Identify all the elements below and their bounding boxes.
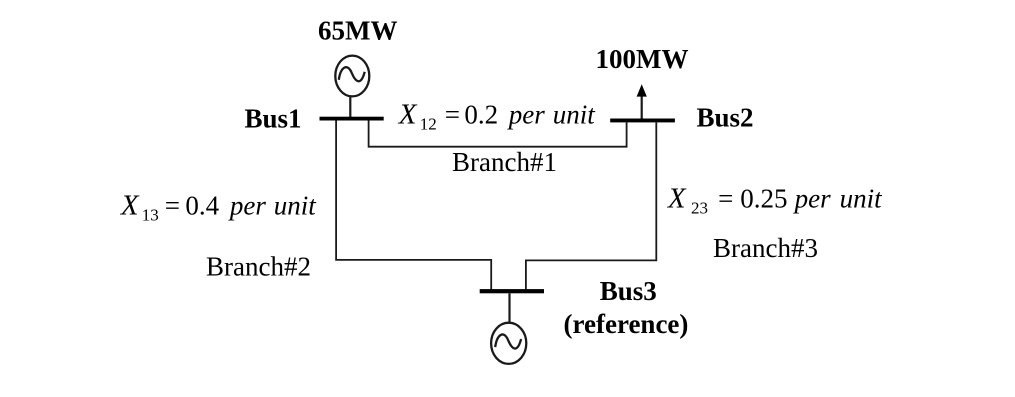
- wire: Branch#1 (Bus1 to Bus2): [369, 121, 627, 147]
- wire: Bus3 stem to G3: [508, 293, 510, 324]
- svg-text:Bus1: Bus1: [245, 104, 302, 134]
- svg-text:Bus2: Bus2: [697, 103, 754, 133]
- wire: G1 stem to Bus1: [349, 96, 351, 117]
- svg-text:(reference): (reference): [564, 309, 689, 339]
- svg-text:100MW: 100MW: [596, 44, 689, 74]
- svg-text:0.2: 0.2: [464, 100, 498, 130]
- svg-text:13: 13: [142, 205, 159, 224]
- svg-text:Bus3: Bus3: [600, 276, 657, 306]
- wire: Branch#2 (Bus1 to Bus3): [336, 121, 491, 290]
- bus bar Bus3 (reference bus): [480, 289, 544, 293]
- svg-text:12: 12: [420, 115, 437, 134]
- svg-text:unit: unit: [274, 190, 318, 220]
- svg-text:X: X: [398, 99, 418, 131]
- label X13 = 0.4 per unit: [120, 189, 317, 224]
- svg-text:per: per: [793, 184, 831, 214]
- label X23 = 0.25 per unit: [667, 183, 883, 218]
- svg-text:X: X: [667, 183, 687, 215]
- svg-text:23: 23: [691, 198, 708, 217]
- svg-text:per: per: [228, 190, 266, 220]
- label X12 = 0.2 per unit: [398, 99, 597, 134]
- load arrow 100MW at Bus2: [637, 84, 647, 118]
- svg-text:=: =: [165, 190, 180, 220]
- bus bar Bus1: [320, 117, 384, 121]
- svg-text:65MW: 65MW: [318, 16, 397, 46]
- svg-text:Branch#2: Branch#2: [206, 252, 311, 282]
- svg-text:unit: unit: [553, 100, 597, 130]
- svg-text:per: per: [507, 100, 545, 130]
- svg-text:unit: unit: [840, 184, 884, 214]
- svg-text:Branch#3: Branch#3: [713, 233, 818, 263]
- wire: Branch#3 (Bus2 to Bus3): [526, 122, 656, 289]
- generator G1: [335, 56, 369, 97]
- svg-text:=: =: [718, 184, 733, 214]
- svg-text:X: X: [120, 189, 140, 221]
- bus bar Bus2: [610, 119, 675, 123]
- generator G3 (reference source): [491, 323, 526, 364]
- svg-text:Branch#1: Branch#1: [452, 147, 557, 177]
- svg-text:0.4: 0.4: [185, 190, 219, 220]
- svg-text:0.25: 0.25: [740, 184, 787, 214]
- svg-text:=: =: [445, 100, 460, 130]
- label Bus3 (reference): [564, 276, 689, 339]
